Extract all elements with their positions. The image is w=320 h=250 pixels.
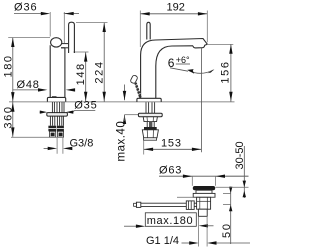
dimension 153 xyxy=(143,141,145,155)
mounting nut xyxy=(143,117,157,122)
shank tubes below plate xyxy=(52,102,64,113)
svg-text:224: 224 xyxy=(94,60,106,83)
joystick lever (side view) xyxy=(147,22,150,39)
dimension max.40 xyxy=(124,85,126,101)
svg-text:+6°: +6° xyxy=(176,55,190,65)
svg-text:30-50: 30-50 xyxy=(234,141,246,169)
extension lines 192 xyxy=(140,11,207,48)
front body xyxy=(50,45,65,97)
dimension G3/8 xyxy=(57,138,63,154)
mounting surface line xyxy=(9,101,235,103)
drain pull rod (hatched) xyxy=(136,83,141,98)
supply fitting hex xyxy=(142,130,158,138)
knob circle xyxy=(51,38,62,47)
side shank tubes xyxy=(146,102,155,113)
side washer xyxy=(138,113,162,117)
rod left end caps xyxy=(136,202,140,207)
dimension 180/360 vertical line xyxy=(12,38,14,137)
svg-text:max.180: max.180 xyxy=(147,215,193,227)
aerator outlet bump xyxy=(193,44,207,48)
svg-text:50: 50 xyxy=(221,222,233,238)
extension line knob top (180) xyxy=(8,37,50,39)
horseshoe washer xyxy=(47,113,68,117)
svg-text:G1 1/4: G1 1/4 xyxy=(146,235,179,247)
swivel arc with arrowheads xyxy=(189,70,214,74)
dimension 224 xyxy=(103,23,105,102)
rod compression nut xyxy=(186,201,194,210)
dimension max.180 xyxy=(124,225,137,227)
cap neck xyxy=(196,190,212,193)
svg-text:max.40: max.40 xyxy=(116,121,128,162)
svg-text:148: 148 xyxy=(75,62,87,85)
Ø63 extension lines xyxy=(192,176,215,186)
svg-text:Ø48: Ø48 xyxy=(17,79,40,91)
tailpipe xyxy=(198,209,207,216)
spout body profile xyxy=(141,39,208,99)
dimension 30-50 xyxy=(243,146,245,198)
dimension G1 1/4 xyxy=(199,217,208,247)
flexible hoses xyxy=(50,116,63,126)
hose end reference line xyxy=(11,136,64,138)
dimension 148 xyxy=(85,52,87,101)
dimension 156 xyxy=(208,43,234,45)
plug cap xyxy=(193,186,215,190)
drain pull rod knob xyxy=(130,75,138,84)
hose end fittings xyxy=(49,131,55,137)
svg-text:153: 153 xyxy=(161,137,182,149)
base plate xyxy=(47,97,65,102)
lever pivot link xyxy=(61,44,68,48)
svg-text:G3/8: G3/8 xyxy=(70,138,94,150)
dimension 192 line xyxy=(140,13,207,15)
drain body xyxy=(197,197,211,209)
dimension 50 xyxy=(230,187,232,245)
arrows 360 xyxy=(11,102,14,111)
arrows 180 xyxy=(11,38,14,47)
extension line body top (148) xyxy=(73,51,88,53)
hose coupling nuts xyxy=(48,126,56,132)
svg-text:156: 156 xyxy=(220,60,232,83)
water stream axis xyxy=(200,48,202,152)
lever bar (front view) xyxy=(69,22,75,53)
supply fitting collar xyxy=(144,127,157,130)
side base plate xyxy=(137,98,161,102)
svg-text:Ø36: Ø36 xyxy=(14,2,38,14)
extension lines of Ø36 xyxy=(50,12,64,43)
extension line to lever top (224) xyxy=(76,22,108,24)
svg-text:180: 180 xyxy=(2,54,14,77)
logo dash on body xyxy=(52,96,57,98)
svg-text:Ø63: Ø63 xyxy=(159,164,182,176)
Ø63 dimension line / basin reference xyxy=(159,175,249,177)
leader line xyxy=(170,68,188,71)
linkage rod xyxy=(141,202,187,204)
drain flange xyxy=(193,193,215,197)
dimension Ø36 line and arrows xyxy=(14,13,79,15)
svg-text:192: 192 xyxy=(167,2,185,14)
supply fitting tip xyxy=(144,138,157,140)
svg-text:360: 360 xyxy=(2,105,14,128)
shank continues xyxy=(147,122,154,127)
basin surface line xyxy=(177,196,216,198)
